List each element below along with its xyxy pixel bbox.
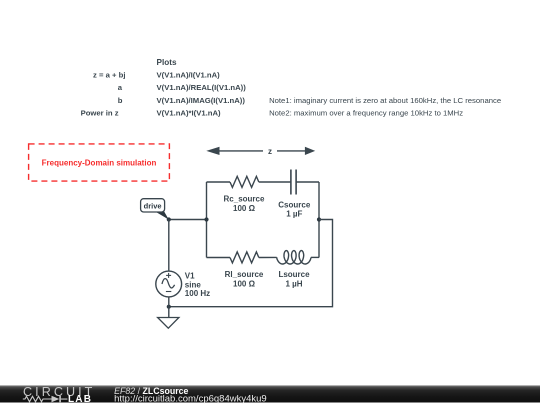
svg-text:100 Hz: 100 Hz [185,289,210,298]
svg-text:V(V1.nA)/I(V1.nA): V(V1.nA)/I(V1.nA) [157,70,221,79]
resistor Rl_source [230,252,259,263]
svg-text:Rc_source: Rc_source [224,195,265,204]
junction: ground node [167,305,171,309]
svg-text:z: z [268,147,272,156]
svg-text:100 Ω: 100 Ω [233,280,256,289]
svg-text:V(V1.nA)/REAL(I(V1.nA)): V(V1.nA)/REAL(I(V1.nA)) [157,83,247,92]
wire: left rail [206,182,208,258]
plot expressions column [157,70,247,117]
svg-text:Plots: Plots [157,58,177,67]
wire: bottom branch right segment [311,256,319,258]
svg-text:1 µH: 1 µH [285,280,302,289]
svg-text:Note1: imaginary current is ze: Note1: imaginary current is zero at abou… [269,96,501,105]
junction: drive node [167,217,171,221]
svg-text:drive: drive [144,201,162,210]
svg-text:100 Ω: 100 Ω [233,204,256,213]
svg-text:b: b [118,96,123,105]
svg-text:z = a + bj: z = a + bj [93,70,125,79]
wire: right rail to outer loop [169,220,333,307]
svg-text:http://circuitlab.com/cp6q84wk: http://circuitlab.com/cp6q84wky4ku9 [114,393,267,404]
ground [158,318,179,329]
plot row labels column [81,70,126,117]
wire: drive node down to V1 [168,220,170,272]
node flag drive [141,199,169,220]
svg-text:Lsource: Lsource [278,270,310,279]
frequency-domain simulation annotation box [29,144,170,181]
svg-text:LAB: LAB [68,394,92,405]
svg-text:V1: V1 [185,272,195,281]
wire: top branch middle segment [259,181,291,183]
footer bar [0,385,540,402]
z dimension arrow [206,147,315,155]
wire: drive node to left rail [169,219,207,221]
resistor Rc_source [230,176,259,187]
svg-text:1 µF: 1 µF [286,210,302,219]
wire: top branch right segment [296,181,319,183]
svg-text:Rl_source: Rl_source [225,270,264,279]
svg-text:Csource: Csource [278,201,311,210]
inductor Lsource [277,251,311,264]
svg-text:Power in z: Power in z [81,109,119,118]
CircuitLab logo diode [52,396,68,402]
svg-text:Note2: maximum over a frequenc: Note2: maximum over a frequency range 10… [269,109,463,118]
capacitor Csource [291,170,296,195]
wire: bottom branch middle segment [259,256,277,258]
svg-text:V(V1.nA)/IMAG(I(V1.nA)): V(V1.nA)/IMAG(I(V1.nA)) [157,96,246,105]
CircuitLab logo resistor zigzag [23,396,52,401]
wire: V1 to ground [168,297,170,318]
wire: bottom branch left segment [207,257,231,259]
voltage source V1 [156,271,182,297]
wire: right rail [318,182,320,258]
svg-text:Frequency-Domain simulation: Frequency-Domain simulation [42,158,157,167]
svg-text:V(V1.nA)*I(V1.nA): V(V1.nA)*I(V1.nA) [157,109,222,118]
wire: top branch left segment [207,181,231,183]
svg-text:a: a [118,83,123,92]
plots table header [157,58,177,67]
junction: right rail tap [317,217,321,221]
junction: left rail tap [204,217,208,221]
